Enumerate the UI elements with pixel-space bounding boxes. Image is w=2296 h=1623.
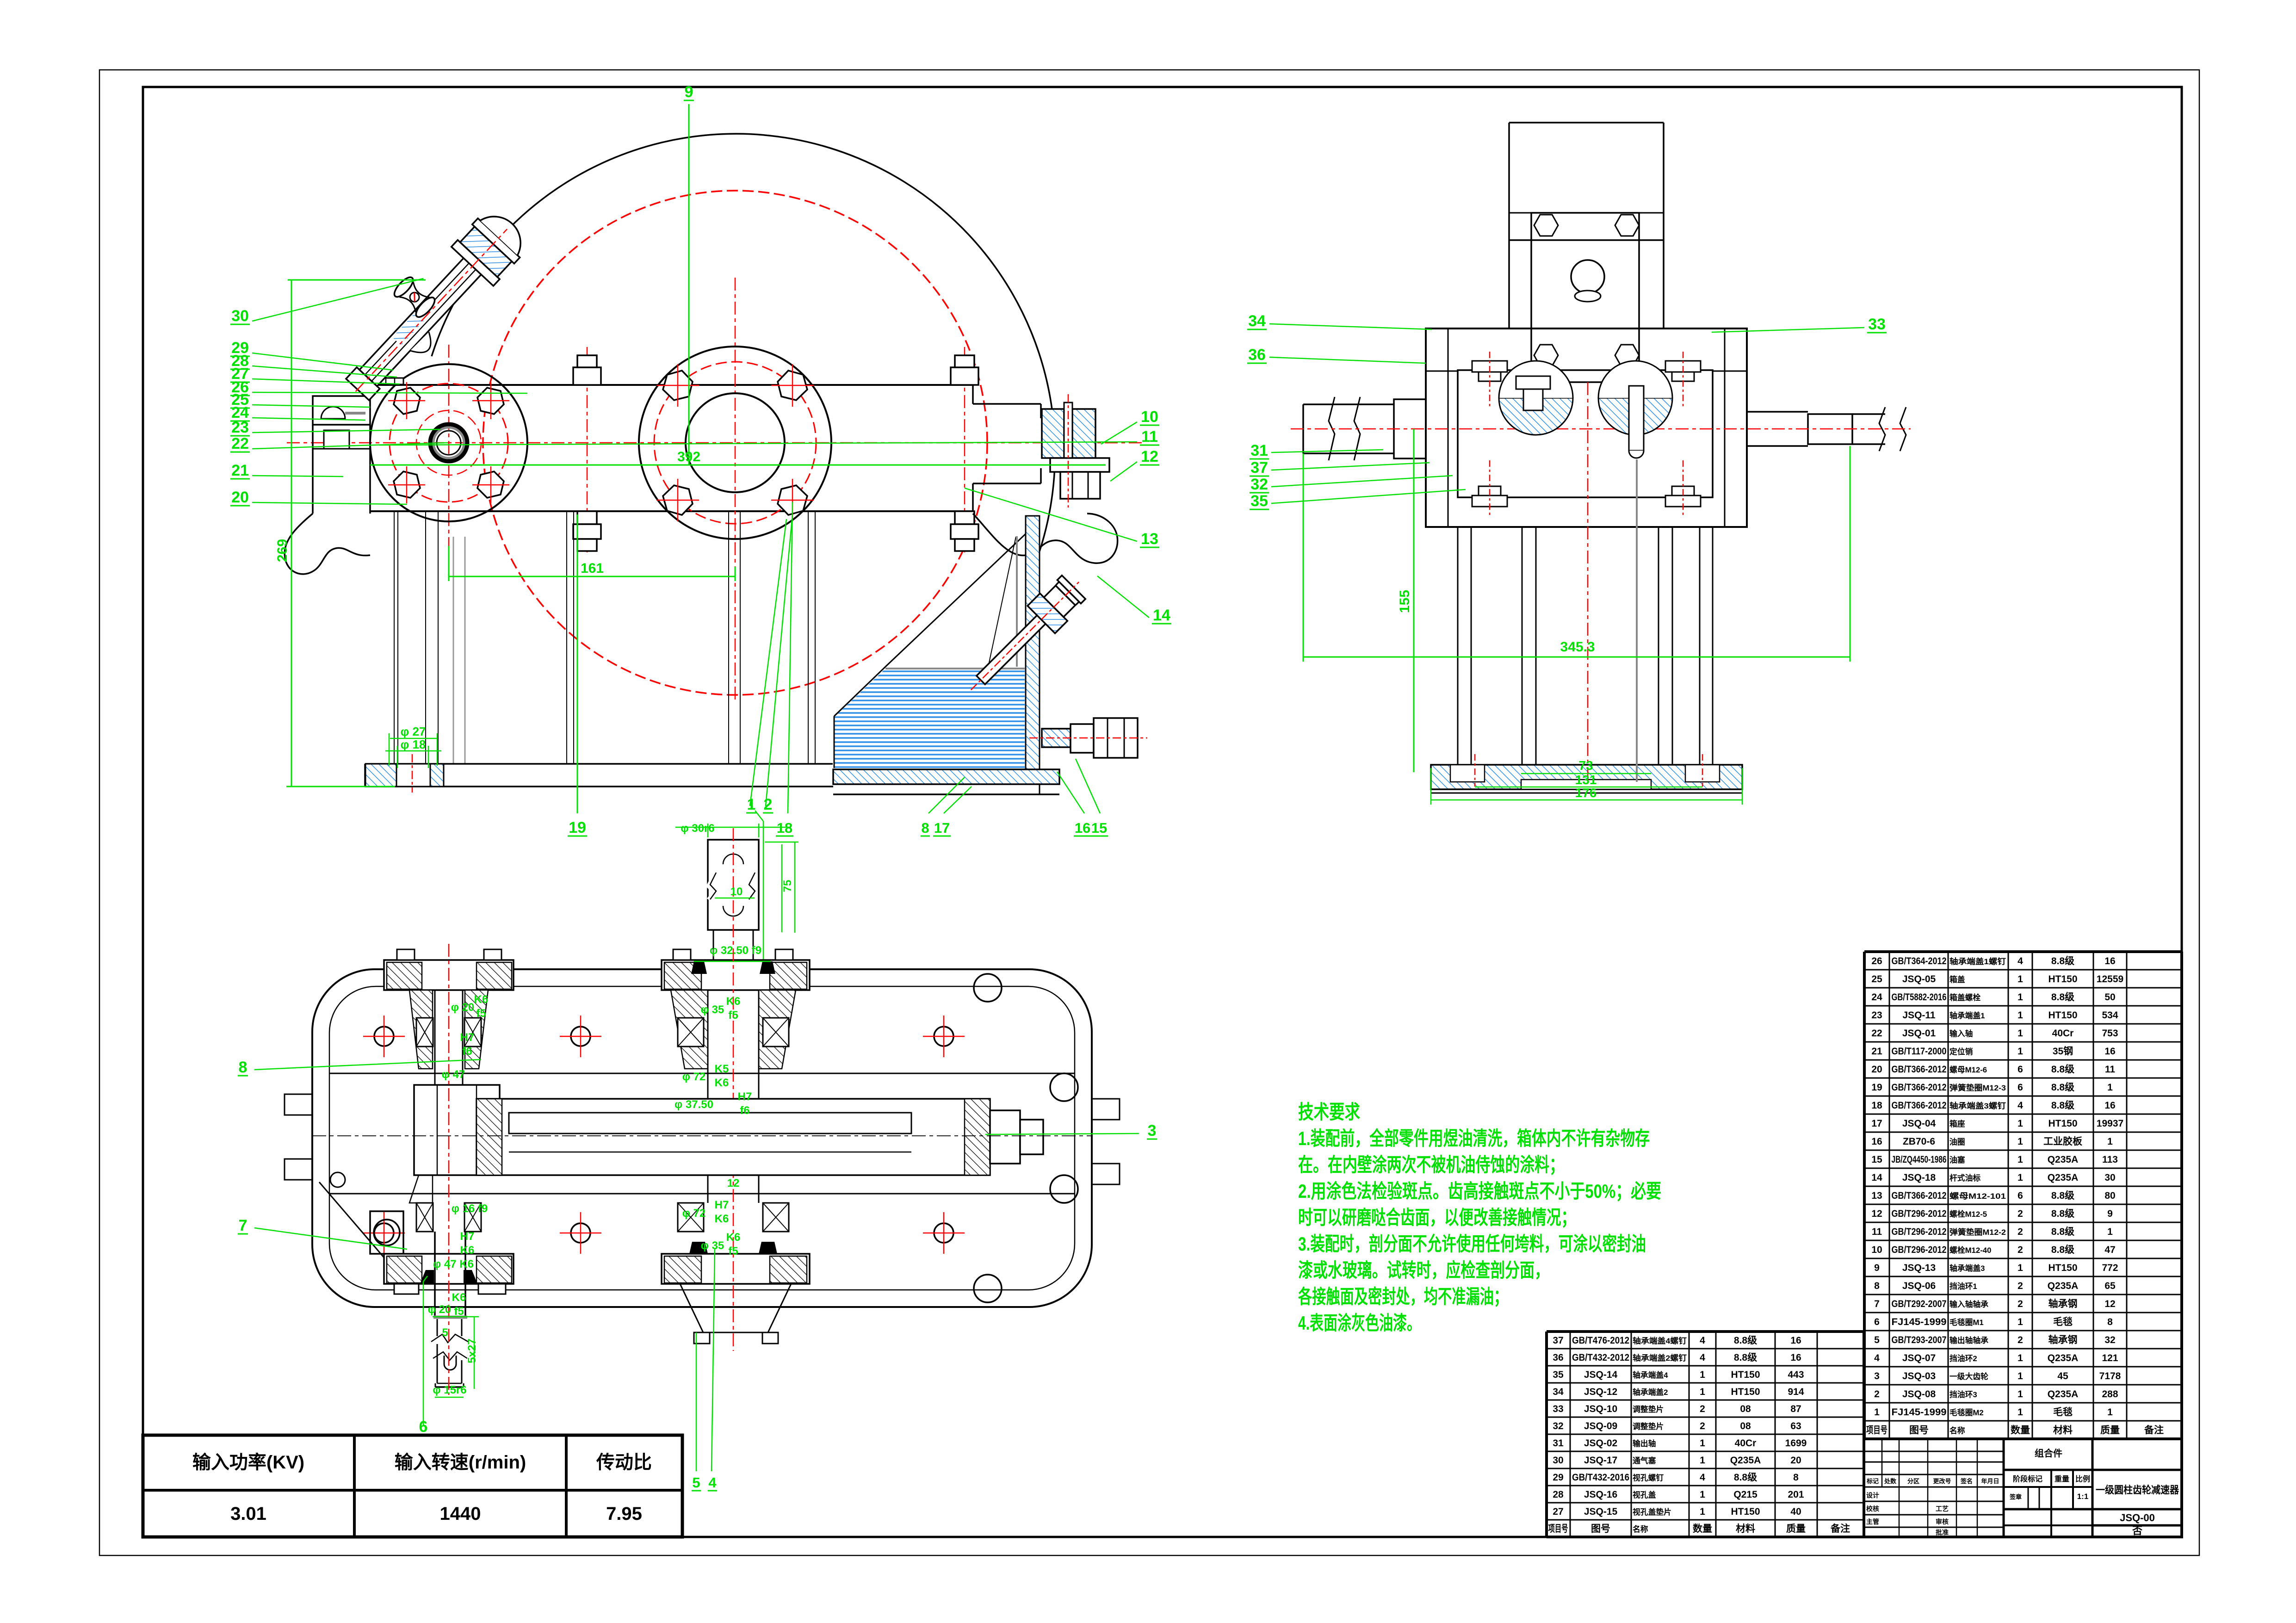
svg-text:6: 6 (2018, 1082, 2023, 1093)
svg-text:392: 392 (677, 449, 700, 465)
svg-text:63: 63 (1790, 1421, 1801, 1431)
svg-text:毛毯圈M2: 毛毯圈M2 (1949, 1408, 1984, 1417)
svg-text:质量: 质量 (2100, 1425, 2120, 1436)
svg-text:HT150: HT150 (2048, 974, 2077, 985)
svg-text:4: 4 (1874, 1353, 1880, 1363)
svg-text:32: 32 (1553, 1421, 1563, 1431)
svg-text:16: 16 (1871, 1136, 1882, 1147)
svg-text:时可以研磨哒合齿面，以便改善接触情况；: 时可以研磨哒合齿面，以便改善接触情况； (1298, 1207, 1576, 1228)
svg-text:螺栓M12-5: 螺栓M12-5 (1949, 1209, 1987, 1219)
svg-text:油圈: 油圈 (1949, 1137, 1965, 1146)
svg-text:JSQ-18: JSQ-18 (1902, 1172, 1936, 1183)
svg-text:1: 1 (2107, 1407, 2113, 1418)
svg-text:GB/T364-2012: GB/T364-2012 (1892, 956, 1947, 966)
svg-text:名称: 名称 (1949, 1426, 1965, 1435)
svg-text:Q235A: Q235A (2048, 1389, 2079, 1400)
svg-text:8.8级: 8.8级 (2051, 1226, 2074, 1237)
svg-text:φ 20: φ 20 (451, 1001, 475, 1014)
svg-text:4.表面涂灰色油漆。: 4.表面涂灰色油漆。 (1298, 1312, 1421, 1334)
svg-text:5: 5 (1874, 1335, 1880, 1345)
svg-text:JSQ-16: JSQ-16 (1584, 1489, 1617, 1500)
svg-text:2.用涂色法检验斑点。齿高接触斑点不小于50%；必要: 2.用涂色法检验斑点。齿高接触斑点不小于50%；必要 (1298, 1180, 1661, 1202)
svg-text:3.01: 3.01 (230, 1504, 266, 1524)
svg-text:288: 288 (2102, 1389, 2118, 1400)
svg-text:5: 5 (692, 1474, 700, 1491)
svg-text:4: 4 (708, 1474, 717, 1491)
svg-text:08: 08 (1740, 1421, 1751, 1431)
svg-text:箱盖螺栓: 箱盖螺栓 (1949, 993, 1980, 1002)
svg-text:8.8级: 8.8级 (2051, 1208, 2074, 1219)
svg-text:输出轴轴承: 输出轴轴承 (1949, 1336, 1988, 1345)
svg-text:73: 73 (1578, 758, 1593, 773)
svg-text:1: 1 (1700, 1387, 1705, 1397)
svg-text:设计: 设计 (1866, 1492, 1879, 1499)
svg-text:φ 35: φ 35 (701, 1239, 724, 1252)
svg-text:8.8级: 8.8级 (2051, 955, 2074, 966)
svg-text:1:1: 1:1 (2077, 1492, 2089, 1501)
svg-text:箱座: 箱座 (1949, 1119, 1965, 1128)
svg-text:47: 47 (2104, 1245, 2115, 1255)
svg-text:JSQ-00: JSQ-00 (2120, 1512, 2155, 1524)
svg-text:挡油环3: 挡油环3 (1949, 1390, 1977, 1399)
svg-text:GB/T366-2012: GB/T366-2012 (1892, 1064, 1947, 1075)
svg-text:HT150: HT150 (1731, 1506, 1760, 1517)
svg-text:挡油环1: 挡油环1 (1949, 1282, 1977, 1291)
svg-text:K6: K6 (715, 1077, 729, 1089)
svg-text:113: 113 (2102, 1154, 2118, 1165)
svg-text:φ 15r6: φ 15r6 (433, 1384, 466, 1396)
svg-text:φ 72: φ 72 (682, 1207, 706, 1220)
svg-text:35钢: 35钢 (2053, 1046, 2073, 1057)
svg-text:GB/T366-2012: GB/T366-2012 (1892, 1100, 1947, 1111)
svg-text:2: 2 (2018, 1208, 2023, 1219)
svg-text:28: 28 (1553, 1489, 1564, 1500)
svg-text:40Cr: 40Cr (2052, 1028, 2074, 1039)
svg-text:1699: 1699 (1785, 1438, 1807, 1449)
svg-text:审核: 审核 (1936, 1518, 1949, 1525)
svg-text:JSQ-09: JSQ-09 (1584, 1421, 1617, 1431)
svg-text:轴承端盖2: 轴承端盖2 (1633, 1388, 1668, 1397)
svg-text:JSQ-15: JSQ-15 (1584, 1506, 1618, 1517)
svg-text:一级大齿轮: 一级大齿轮 (1949, 1372, 1988, 1381)
svg-text:f5: f5 (728, 1009, 738, 1022)
svg-text:批准: 批准 (1936, 1529, 1949, 1536)
svg-text:75: 75 (781, 880, 794, 892)
svg-text:1: 1 (2107, 1136, 2113, 1147)
svg-text:轴承端盖2螺钉: 轴承端盖2螺钉 (1633, 1353, 1687, 1363)
svg-text:数量: 数量 (1693, 1524, 1712, 1534)
svg-text:20: 20 (1871, 1064, 1882, 1075)
svg-text:1440: 1440 (440, 1504, 481, 1524)
svg-text:H7: H7 (715, 1199, 729, 1211)
svg-text:1: 1 (1700, 1506, 1705, 1517)
svg-text:15: 15 (1871, 1154, 1882, 1165)
svg-text:1: 1 (2018, 1353, 2023, 1363)
svg-text:毛毯: 毛毯 (2053, 1316, 2073, 1327)
svg-text:工艺: 工艺 (1936, 1505, 1949, 1512)
svg-text:7: 7 (1874, 1299, 1880, 1309)
svg-text:2: 2 (2018, 1335, 2023, 1345)
svg-text:名称: 名称 (1633, 1524, 1648, 1534)
svg-text:24: 24 (1871, 992, 1882, 1003)
svg-text:16: 16 (1790, 1335, 1801, 1346)
svg-text:JSQ-02: JSQ-02 (1584, 1438, 1617, 1449)
svg-text:弹簧垫圈M12-3: 弹簧垫圈M12-3 (1949, 1083, 2006, 1092)
svg-text:HT150: HT150 (2048, 1118, 2077, 1129)
svg-text:8: 8 (239, 1059, 248, 1076)
svg-text:17: 17 (1871, 1118, 1882, 1129)
svg-text:图号: 图号 (1591, 1524, 1610, 1534)
svg-text:JSQ-11: JSQ-11 (1902, 1010, 1936, 1021)
svg-text:f6: f6 (462, 1045, 472, 1058)
svg-text:40Cr: 40Cr (1735, 1438, 1757, 1449)
svg-text:12: 12 (1871, 1208, 1882, 1219)
svg-text:40: 40 (1790, 1506, 1801, 1517)
svg-text:FJ145-1999: FJ145-1999 (1892, 1407, 1947, 1418)
svg-text:7178: 7178 (2099, 1371, 2121, 1381)
svg-text:φ 18: φ 18 (401, 737, 426, 751)
svg-text:1: 1 (2018, 1154, 2023, 1165)
svg-text:7.95: 7.95 (606, 1504, 642, 1524)
svg-text:输入轴: 输入轴 (1949, 1029, 1973, 1038)
svg-text:25: 25 (1871, 974, 1882, 985)
svg-text:图号: 图号 (1909, 1425, 1929, 1436)
svg-text:34: 34 (1248, 312, 1266, 330)
svg-text:校核: 校核 (1866, 1505, 1879, 1512)
svg-text:16: 16 (1790, 1352, 1801, 1363)
svg-text:3.装配时，剖分面不允许使用任何垮料，可涂以密封油: 3.装配时，剖分面不允许使用任何垮料，可涂以密封油 (1298, 1233, 1646, 1255)
svg-text:φ 47: φ 47 (442, 1068, 465, 1081)
svg-text:传动比: 传动比 (596, 1452, 652, 1473)
svg-text:质量: 质量 (1786, 1524, 1806, 1534)
svg-text:f5: f5 (728, 1245, 738, 1258)
svg-text:组合件: 组合件 (2035, 1448, 2062, 1459)
svg-text:φ 47 K6: φ 47 K6 (433, 1258, 474, 1270)
svg-text:输入功率(KV): 输入功率(KV) (192, 1452, 304, 1473)
svg-text:10: 10 (1141, 408, 1158, 426)
svg-text:87: 87 (1790, 1404, 1801, 1414)
svg-text:16: 16 (2104, 956, 2115, 966)
svg-text:更改号: 更改号 (1933, 1478, 1951, 1485)
svg-text:1: 1 (2018, 1118, 2023, 1129)
svg-text:9: 9 (2107, 1208, 2113, 1219)
svg-text:18: 18 (1871, 1100, 1882, 1111)
svg-text:φ 32.50 f9: φ 32.50 f9 (710, 944, 761, 957)
svg-text:GB/T366-2012: GB/T366-2012 (1892, 1190, 1947, 1201)
svg-text:1: 1 (1700, 1489, 1705, 1500)
svg-text:ZB70-6: ZB70-6 (1903, 1136, 1935, 1147)
svg-text:1: 1 (1700, 1455, 1705, 1466)
svg-text:6: 6 (2018, 1190, 2023, 1201)
svg-text:GB/T296-2012: GB/T296-2012 (1892, 1227, 1947, 1237)
svg-text:轴承端盖4螺钉: 轴承端盖4螺钉 (1633, 1336, 1687, 1345)
svg-text:4: 4 (2018, 956, 2023, 966)
svg-text:分区: 分区 (1907, 1478, 1919, 1485)
svg-text:1: 1 (2018, 992, 2023, 1003)
svg-text:914: 914 (1788, 1387, 1804, 1397)
svg-text:201: 201 (1788, 1489, 1804, 1500)
svg-text:H7: H7 (460, 1230, 475, 1243)
svg-text:34: 34 (1553, 1387, 1564, 1397)
svg-text:油塞: 油塞 (1949, 1155, 1965, 1165)
svg-text:调整垫片: 调整垫片 (1633, 1405, 1664, 1414)
svg-text:K6: K6 (460, 1244, 475, 1257)
svg-text:轴承端盖4: 轴承端盖4 (1633, 1370, 1668, 1380)
svg-text:轴承钢: 轴承钢 (2048, 1334, 2078, 1345)
svg-text:各接触面及密封处，均不准漏油；: 各接触面及密封处，均不准漏油； (1298, 1286, 1508, 1307)
svg-text:φ 27: φ 27 (401, 725, 426, 738)
svg-text:31: 31 (1250, 442, 1268, 459)
svg-text:主管: 主管 (1866, 1518, 1879, 1525)
svg-text:8.8级: 8.8级 (2051, 1190, 2074, 1201)
svg-text:30: 30 (1553, 1455, 1563, 1466)
svg-text:材料: 材料 (2053, 1425, 2073, 1436)
svg-text:φ 37.50: φ 37.50 (675, 1098, 713, 1111)
svg-text:JSQ-06: JSQ-06 (1902, 1281, 1936, 1291)
svg-text:HT150: HT150 (2048, 1263, 2077, 1273)
svg-text:30: 30 (2104, 1172, 2115, 1183)
svg-text:16: 16 (2104, 1046, 2115, 1057)
svg-text:挡油环2: 挡油环2 (1949, 1354, 1977, 1363)
svg-text:JSQ-13: JSQ-13 (1902, 1263, 1936, 1273)
svg-text:φ 20: φ 20 (428, 1303, 452, 1316)
svg-text:f5: f5 (476, 1007, 486, 1020)
svg-text:10: 10 (1871, 1245, 1882, 1255)
svg-text:2: 2 (2018, 1227, 2023, 1237)
svg-text:20: 20 (1790, 1455, 1801, 1466)
svg-text:2: 2 (2018, 1281, 2023, 1291)
svg-text:2: 2 (2018, 1245, 2023, 1255)
svg-text:输出轴: 输出轴 (1633, 1439, 1656, 1448)
svg-text:2: 2 (764, 796, 773, 813)
svg-text:29: 29 (1553, 1472, 1563, 1483)
svg-text:f5: f5 (454, 1305, 464, 1318)
svg-text:80: 80 (2104, 1190, 2115, 1201)
svg-text:螺母M12-6: 螺母M12-6 (1949, 1065, 1987, 1074)
svg-text:通气塞: 通气塞 (1633, 1456, 1656, 1465)
svg-text:16: 16 (1075, 820, 1090, 836)
svg-text:GB/T432-2012: GB/T432-2012 (1572, 1352, 1629, 1363)
svg-text:φ 30r6: φ 30r6 (681, 822, 714, 835)
svg-text:2: 2 (1700, 1421, 1705, 1431)
svg-text:8.8级: 8.8级 (2051, 1082, 2074, 1093)
svg-text:8.8级: 8.8级 (1734, 1472, 1757, 1483)
svg-text:6: 6 (1874, 1317, 1880, 1327)
svg-text:一级圆柱齿轮减速器: 一级圆柱齿轮减速器 (2096, 1484, 2179, 1496)
svg-text:漆或水玻璃。试转时，应检查剖分面，: 漆或水玻璃。试转时，应检查剖分面， (1298, 1259, 1549, 1281)
svg-text:26: 26 (1871, 956, 1882, 966)
svg-text:GB/T5882-2016: GB/T5882-2016 (1892, 992, 1947, 1003)
svg-text:f6: f6 (740, 1104, 749, 1117)
svg-text:19: 19 (569, 819, 586, 836)
svg-text:8: 8 (2107, 1317, 2113, 1327)
svg-text:8: 8 (1874, 1281, 1880, 1291)
svg-text:K6: K6 (715, 1213, 729, 1225)
svg-text:8.8级: 8.8级 (1734, 1335, 1757, 1346)
svg-text:Q235A: Q235A (2048, 1154, 2079, 1165)
svg-text:GB/T296-2012: GB/T296-2012 (1892, 1208, 1947, 1219)
svg-text:20: 20 (231, 489, 249, 506)
svg-text:1: 1 (1700, 1369, 1705, 1380)
svg-text:8.8级: 8.8级 (1734, 1352, 1757, 1363)
svg-text:轴承端盖1: 轴承端盖1 (1949, 1011, 1985, 1020)
svg-text:工业胶板: 工业胶板 (2043, 1136, 2083, 1147)
svg-text:1: 1 (2018, 1371, 2023, 1381)
svg-text:14: 14 (1153, 607, 1170, 624)
svg-text:K6: K6 (726, 1231, 741, 1244)
svg-text:5x27: 5x27 (466, 1338, 478, 1363)
svg-text:15: 15 (1091, 820, 1107, 836)
svg-text:重量: 重量 (2055, 1474, 2069, 1483)
svg-text:GB/T117-2000: GB/T117-2000 (1892, 1046, 1947, 1057)
svg-text:否: 否 (2132, 1525, 2142, 1536)
svg-text:处数: 处数 (1884, 1478, 1897, 1485)
svg-text:3: 3 (1874, 1371, 1880, 1381)
svg-text:4: 4 (1700, 1352, 1705, 1363)
svg-text:8.8级: 8.8级 (2051, 1100, 2074, 1111)
svg-text:45: 45 (2057, 1371, 2068, 1381)
svg-text:HT150: HT150 (1731, 1387, 1760, 1397)
svg-text:443: 443 (1788, 1369, 1804, 1380)
svg-text:1: 1 (2018, 1046, 2023, 1057)
svg-text:备注: 备注 (1830, 1523, 1850, 1534)
svg-text:345.3: 345.3 (1560, 639, 1595, 655)
svg-text:11: 11 (1872, 1227, 1882, 1237)
svg-text:5: 5 (442, 1326, 448, 1339)
svg-text:23: 23 (231, 419, 249, 436)
svg-text:轴承端盖3: 轴承端盖3 (1949, 1264, 1985, 1273)
svg-text:12559: 12559 (2097, 974, 2123, 985)
svg-text:11: 11 (2105, 1064, 2116, 1075)
svg-text:131: 131 (1575, 773, 1597, 787)
svg-text:18: 18 (777, 820, 792, 836)
svg-text:GB/T296-2012: GB/T296-2012 (1892, 1245, 1947, 1255)
svg-text:1: 1 (1700, 1438, 1705, 1449)
svg-text:12: 12 (1141, 448, 1158, 465)
svg-text:13: 13 (1871, 1190, 1882, 1201)
svg-text:2: 2 (2018, 1299, 2023, 1309)
svg-text:HT150: HT150 (2048, 1010, 2077, 1021)
svg-text:JSQ-08: JSQ-08 (1902, 1389, 1936, 1400)
svg-text:标记: 标记 (1866, 1478, 1879, 1485)
svg-text:8.8级: 8.8级 (2051, 991, 2074, 1003)
svg-text:121: 121 (2102, 1353, 2118, 1363)
svg-text:6: 6 (2018, 1064, 2023, 1075)
svg-text:JSQ-01: JSQ-01 (1902, 1028, 1936, 1039)
svg-text:13: 13 (1141, 530, 1158, 548)
svg-text:12: 12 (727, 1177, 740, 1189)
svg-text:12: 12 (2104, 1299, 2115, 1309)
svg-text:19: 19 (1871, 1082, 1882, 1093)
svg-text:1: 1 (2018, 1317, 2023, 1327)
svg-text:37: 37 (1553, 1335, 1563, 1346)
svg-text:155: 155 (1397, 590, 1412, 613)
svg-text:534: 534 (2102, 1010, 2118, 1021)
svg-text:4: 4 (1700, 1335, 1705, 1346)
svg-text:08: 08 (1740, 1404, 1751, 1414)
svg-text:7: 7 (239, 1217, 248, 1234)
svg-text:签名: 签名 (1960, 1478, 1973, 1485)
svg-text:33: 33 (1868, 316, 1886, 333)
svg-text:772: 772 (2102, 1263, 2118, 1273)
svg-text:Q235A: Q235A (2048, 1172, 2079, 1183)
svg-text:JSQ-03: JSQ-03 (1902, 1371, 1936, 1381)
svg-text:1: 1 (2018, 1407, 2023, 1418)
svg-text:备注: 备注 (2144, 1425, 2164, 1436)
svg-text:比例: 比例 (2075, 1474, 2090, 1483)
svg-text:2: 2 (1874, 1389, 1880, 1400)
svg-text:JSQ-07: JSQ-07 (1902, 1353, 1936, 1363)
svg-text:K6: K6 (452, 1291, 466, 1304)
svg-text:35: 35 (1250, 492, 1268, 510)
svg-text:Q235A: Q235A (2048, 1281, 2079, 1291)
svg-text:176: 176 (1575, 786, 1597, 800)
svg-text:视孔螺钉: 视孔螺钉 (1633, 1473, 1664, 1482)
svg-text:1: 1 (2018, 1263, 2023, 1273)
svg-text:30: 30 (231, 307, 249, 325)
svg-text:JSQ-04: JSQ-04 (1902, 1118, 1936, 1129)
svg-text:Q215: Q215 (1733, 1489, 1758, 1500)
svg-text:JB/ZQ4450-1986: JB/ZQ4450-1986 (1892, 1154, 1947, 1165)
svg-text:161: 161 (581, 561, 604, 576)
svg-text:GB/T366-2012: GB/T366-2012 (1892, 1082, 1947, 1093)
svg-text:杆式油标: 杆式油标 (1949, 1173, 1980, 1183)
svg-text:箱盖: 箱盖 (1949, 975, 1965, 984)
svg-text:年月日: 年月日 (1981, 1478, 1999, 1485)
svg-text:材料: 材料 (1736, 1523, 1755, 1534)
svg-text:37: 37 (1250, 459, 1268, 477)
svg-text:21: 21 (1871, 1046, 1882, 1057)
svg-text:GB/T292-2007: GB/T292-2007 (1892, 1299, 1947, 1309)
svg-text:11: 11 (1141, 428, 1158, 446)
svg-text:输入转速(r/min): 输入转速(r/min) (395, 1452, 526, 1473)
svg-text:4: 4 (2018, 1100, 2023, 1111)
svg-text:毛毯圈M1: 毛毯圈M1 (1949, 1318, 1984, 1327)
svg-text:3: 3 (1148, 1122, 1157, 1140)
svg-text:8.8级: 8.8级 (2051, 1244, 2074, 1255)
svg-text:JSQ-05: JSQ-05 (1902, 974, 1936, 985)
svg-text:22: 22 (1871, 1028, 1882, 1039)
svg-text:HT150: HT150 (1731, 1369, 1760, 1380)
svg-text:轴承端盖1螺钉: 轴承端盖1螺钉 (1949, 957, 2006, 966)
svg-text:螺母M12-101: 螺母M12-101 (1949, 1192, 2006, 1201)
svg-text:1: 1 (2018, 1010, 2023, 1021)
svg-text:1: 1 (2107, 1082, 2113, 1093)
svg-text:K6: K6 (726, 995, 741, 1008)
svg-text:19937: 19937 (2097, 1118, 2123, 1129)
svg-text:8.8级: 8.8级 (2051, 1064, 2074, 1075)
svg-text:GB/T432-2016: GB/T432-2016 (1572, 1472, 1629, 1483)
svg-text:弹簧垫圈M12-2: 弹簧垫圈M12-2 (1949, 1227, 2006, 1237)
svg-text:φ 16 f9: φ 16 f9 (452, 1202, 488, 1215)
svg-text:JSQ-14: JSQ-14 (1584, 1369, 1618, 1380)
svg-text:22: 22 (231, 435, 249, 452)
svg-text:JSQ-10: JSQ-10 (1584, 1404, 1617, 1414)
svg-text:Q235A: Q235A (1730, 1455, 1761, 1466)
svg-text:视孔盖垫片: 视孔盖垫片 (1633, 1507, 1671, 1517)
svg-text:K6: K6 (474, 993, 489, 1006)
svg-text:17: 17 (934, 820, 950, 836)
svg-text:JSQ-12: JSQ-12 (1584, 1387, 1617, 1397)
svg-text:1: 1 (2018, 974, 2023, 985)
svg-text:14: 14 (1871, 1172, 1882, 1183)
svg-text:32: 32 (2104, 1335, 2115, 1345)
svg-text:27: 27 (1553, 1506, 1563, 1517)
svg-text:毛毯: 毛毯 (2053, 1406, 2073, 1418)
svg-text:1: 1 (2107, 1227, 2113, 1237)
svg-text:H7: H7 (738, 1090, 752, 1103)
svg-text:36: 36 (1553, 1352, 1563, 1363)
